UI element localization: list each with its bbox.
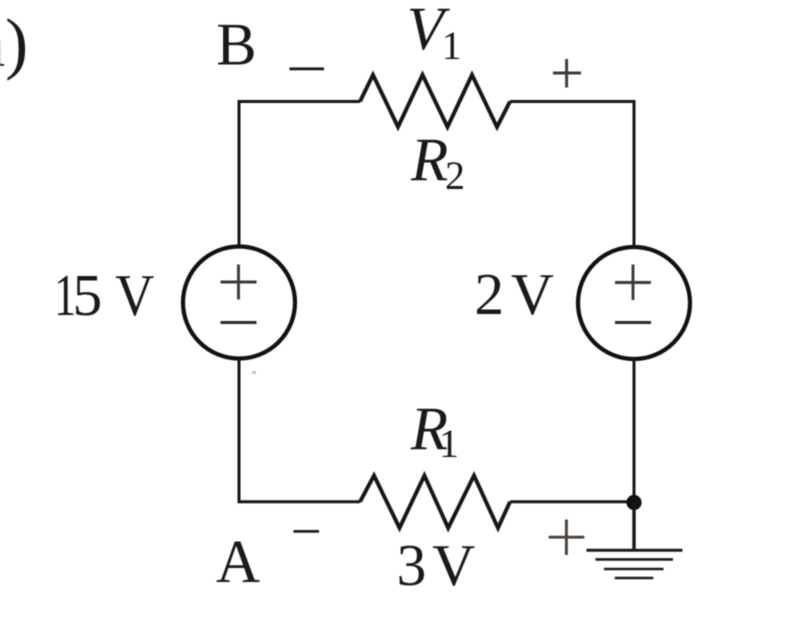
plus sign bottom right <box>549 520 585 556</box>
svg-text:a): a) <box>0 5 28 81</box>
svg-text:A: A <box>216 529 260 596</box>
resistor R2 zigzag <box>360 75 510 127</box>
svg-text:1: 1 <box>442 23 462 68</box>
label 3 V <box>397 532 476 598</box>
ground symbol <box>587 550 683 578</box>
voltage source V2 circle <box>578 247 690 359</box>
wire ground stub <box>632 503 635 550</box>
wire left vertical upper <box>238 100 241 247</box>
wire right vertical lower <box>633 359 636 502</box>
svg-text:3: 3 <box>397 532 427 598</box>
wire right vertical upper <box>633 100 636 248</box>
plus inside right source <box>615 265 651 301</box>
label R2 <box>410 127 465 198</box>
svg-text:1: 1 <box>439 421 459 466</box>
wire top-right horizontal <box>510 100 636 103</box>
svg-text:2: 2 <box>445 153 465 198</box>
svg-text:R: R <box>410 127 448 194</box>
stray mark below left source <box>252 371 256 374</box>
minus inside left source <box>221 321 257 324</box>
resistor R1 zigzag <box>360 476 510 529</box>
plus inside left source <box>221 265 257 300</box>
svg-text:5: 5 <box>73 262 103 328</box>
svg-text:V: V <box>432 532 475 598</box>
label R1 <box>410 396 459 466</box>
label V1 <box>407 0 462 68</box>
minus sign near B <box>290 67 325 70</box>
svg-text:B: B <box>216 11 256 78</box>
svg-text:V: V <box>115 262 154 328</box>
wire left vertical lower <box>239 359 360 502</box>
label 2 V <box>474 261 554 327</box>
wire bottom-right horizontal <box>510 500 634 503</box>
plus sign top right <box>553 59 581 88</box>
wire top-left horizontal <box>239 100 360 103</box>
svg-text:2: 2 <box>474 261 504 327</box>
minus inside right source <box>615 321 651 324</box>
junction node dot <box>626 495 641 510</box>
svg-text:V: V <box>511 261 554 327</box>
voltage source V15 circle <box>183 247 295 359</box>
minus sign near A <box>294 530 320 533</box>
label 15 V <box>54 262 154 328</box>
